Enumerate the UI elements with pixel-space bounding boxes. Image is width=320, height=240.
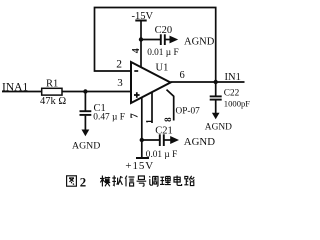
svg-text:IN1: IN1 (225, 72, 241, 83)
svg-text:1000pF: 1000pF (224, 99, 250, 109)
svg-text:+15V: +15V (125, 160, 154, 172)
svg-text:AGND: AGND (184, 37, 215, 48)
svg-text:0.01 µ F: 0.01 µ F (146, 150, 177, 160)
svg-text:2: 2 (116, 59, 122, 71)
svg-text:7: 7 (129, 113, 140, 118)
svg-text:0.01 µ F: 0.01 µ F (147, 48, 178, 58)
svg-text:C22: C22 (224, 89, 240, 99)
svg-text:47k Ω: 47k Ω (40, 96, 66, 107)
svg-text:2: 2 (80, 175, 86, 189)
svg-text:C20: C20 (155, 25, 173, 36)
svg-text:OP-07: OP-07 (176, 106, 201, 116)
svg-text:INA1: INA1 (2, 82, 28, 94)
svg-text:4: 4 (131, 48, 142, 53)
svg-text:C21: C21 (155, 125, 173, 136)
svg-text:AGND: AGND (72, 141, 100, 152)
svg-text:AGND: AGND (184, 136, 215, 148)
svg-text:8: 8 (163, 117, 173, 122)
svg-text:U1: U1 (156, 63, 169, 74)
svg-text:-15V: -15V (132, 11, 154, 22)
svg-text:R1: R1 (46, 79, 58, 90)
svg-text:1: 1 (144, 119, 154, 124)
svg-text:3: 3 (117, 77, 123, 89)
svg-text:AGND: AGND (205, 123, 232, 133)
svg-text:6: 6 (180, 70, 185, 81)
svg-text:0.47 µ F: 0.47 µ F (93, 113, 125, 123)
